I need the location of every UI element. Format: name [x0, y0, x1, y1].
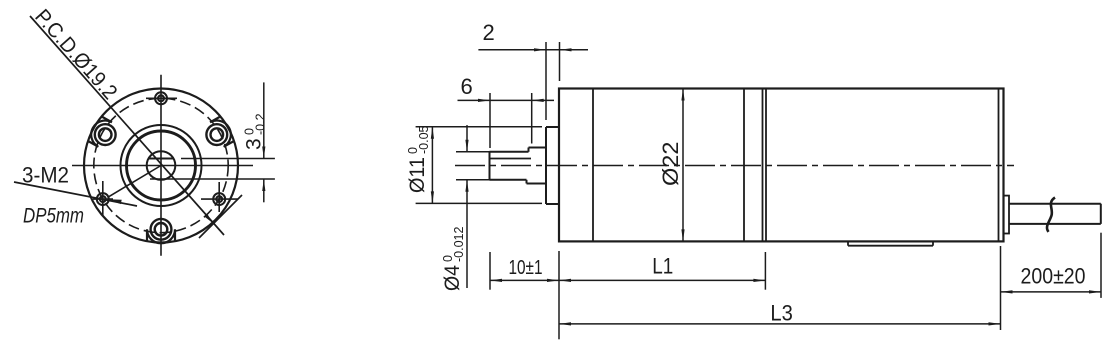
- crosshair lower-left M2 hole: [93, 198, 113, 200]
- M2 tapped hole lower-right inner: [216, 196, 222, 202]
- dim L1 extension line: [764, 252, 766, 290]
- svg-text:-0.2: -0.2: [254, 113, 268, 135]
- side view centerline: [455, 165, 1014, 167]
- svg-text:Ø4: Ø4: [441, 265, 464, 291]
- cable exit bushing: [1004, 196, 1010, 234]
- shaft Ø4 outline: [490, 151, 529, 153]
- 3-M2 leader line: [14, 182, 137, 206]
- front view bearing bore circle (thick): [127, 131, 196, 200]
- svg-text:-0.05: -0.05: [417, 125, 431, 154]
- screw ring upper-right inner: [211, 128, 224, 141]
- svg-text:DP5mm: DP5mm: [23, 205, 84, 228]
- boss Ø11 outline: [545, 127, 547, 204]
- crosshair lower-right M2 hole: [201, 198, 238, 200]
- screw ring bottom inner: [155, 223, 168, 236]
- svg-text:2: 2: [483, 20, 495, 45]
- svg-text:3-M2: 3-M2: [22, 163, 69, 188]
- dim 3-0.2 dimension line: [263, 82, 265, 158]
- M2 tapped hole top outer: [155, 92, 167, 104]
- dim Ø22 dimension line: [682, 89, 684, 242]
- gearbox rear seam: [743, 89, 745, 242]
- gearbox-motor joint lines: [762, 89, 764, 242]
- screw ring upper-right outer: [206, 124, 227, 145]
- svg-text:Ø22: Ø22: [658, 142, 683, 187]
- dim Ø11 extension lines: [416, 126, 542, 128]
- dim 6 extension lines: [489, 93, 491, 148]
- front view shaft flat chord: [149, 158, 175, 160]
- dim L3 dimension line: [559, 323, 1001, 325]
- svg-text:L3: L3: [770, 301, 793, 326]
- tick through top M2 hole: [146, 97, 177, 99]
- dim Ø11 dimension line: [431, 127, 433, 204]
- body-edge extension line: [558, 251, 560, 339]
- dim Ø4 dimension line: [466, 125, 468, 152]
- screw ring bottom outer: [151, 219, 172, 240]
- dim 10±1 extension line: [489, 252, 491, 290]
- dim 2 dimension line: [478, 49, 588, 51]
- cable break symbol: [1047, 198, 1055, 232]
- radial line from lower-left M2 hole to center: [109, 166, 161, 197]
- dim 6 dimension line: [458, 99, 555, 101]
- dim Ø22 text: [658, 142, 683, 187]
- gearbox/motor body outline: [559, 89, 1004, 242]
- dim L1 dimension line: [559, 279, 765, 281]
- front view horizontal centerline: [72, 165, 253, 167]
- front view P.C.D. Ø19.2 bolt circle (dashed): [94, 98, 228, 232]
- svg-text:-0.012: -0.012: [452, 227, 466, 262]
- front view outer circle Ø22 face: [84, 89, 238, 243]
- front view boss outer circle: [121, 125, 202, 206]
- dim Ø11 text: [406, 125, 431, 193]
- M2 tapped hole lower-right outer: [213, 193, 225, 205]
- cable: [1009, 203, 1101, 205]
- M2 tapped hole top inner: [158, 95, 164, 101]
- mounting slot bottom: [147, 229, 175, 243]
- svg-text:6: 6: [461, 74, 473, 99]
- mounting slot upper-left: [88, 117, 112, 147]
- svg-text:L1: L1: [652, 254, 673, 279]
- dim Ø4 text: [441, 227, 466, 291]
- P.C.D. leader line: [30, 16, 224, 235]
- dim 3-0.2 text: [243, 113, 268, 150]
- M2 tapped hole lower-left inner: [100, 196, 106, 202]
- screw ring upper-left outer: [95, 124, 116, 145]
- dim 10±1 dimension line: [490, 279, 559, 281]
- cross tick on P.C.D. leader: [199, 195, 242, 238]
- mounting slot upper-right: [210, 117, 234, 147]
- dim 200±20 dimension line: [1001, 291, 1102, 293]
- front view shaft Ø4 circle: [147, 151, 176, 180]
- shaft step section: [528, 148, 530, 152]
- front view vertical centerline: [160, 75, 162, 256]
- svg-text:3: 3: [243, 138, 266, 150]
- motor endcap seam: [998, 89, 1000, 242]
- dim 200±20 extension line: [1100, 233, 1102, 298]
- shaft flat line: [490, 158, 532, 160]
- svg-text:10±1: 10±1: [509, 257, 543, 279]
- M2 tapped hole lower-left outer: [97, 193, 109, 205]
- dim Ø4 extension lines: [456, 151, 490, 153]
- dim 2 extension lines: [545, 42, 547, 120]
- dim 3-0.2 extension lines: [181, 158, 275, 160]
- svg-text:200±20: 200±20: [1021, 264, 1086, 289]
- gearbox front cover seam: [592, 89, 594, 242]
- dim L3 extension line: [1000, 246, 1002, 330]
- svg-text:Ø11: Ø11: [406, 157, 429, 193]
- motor bottom tab: [847, 241, 849, 245]
- screw ring upper-left inner: [99, 128, 112, 141]
